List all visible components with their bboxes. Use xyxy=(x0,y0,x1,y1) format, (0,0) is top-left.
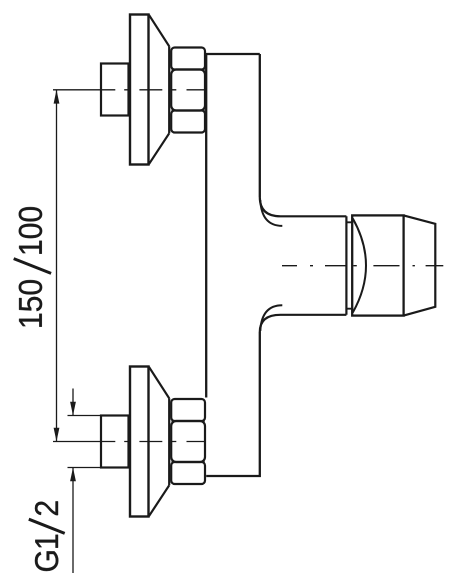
upper fillet secondary arc xyxy=(260,200,282,226)
bottom wall flange plate xyxy=(130,367,149,517)
bottom hex nut face boundary lines xyxy=(172,421,205,462)
ring groove left edge xyxy=(345,216,347,314)
valve housing upper contour with fillet xyxy=(260,197,347,216)
arrowhead main bottom xyxy=(54,428,60,442)
secondary dimension line lower segment xyxy=(72,468,74,574)
main dimension line 150/100 xyxy=(56,90,58,442)
arrowhead secondary down xyxy=(70,402,76,416)
big slash of 150/100 xyxy=(14,259,51,274)
top centre line solid run xyxy=(53,89,115,91)
arrowhead main top xyxy=(54,90,60,104)
dimension text 150 xyxy=(19,280,42,327)
top hex nut face upper xyxy=(171,48,205,70)
end knob xyxy=(404,215,436,315)
bottom centre line dash-dot run xyxy=(124,441,204,443)
big slash of G1/2 xyxy=(29,519,65,533)
top hex nut face lower xyxy=(171,111,205,133)
bottom inlet stub G1/2 xyxy=(101,416,129,468)
bottom hex nut face lower xyxy=(171,462,205,484)
ring groove step lines xyxy=(346,222,352,308)
bottom escutcheon cone xyxy=(149,367,169,516)
thread label 2 xyxy=(35,501,58,515)
cap lens arc xyxy=(353,219,366,313)
extension line stub bottom xyxy=(68,467,102,469)
thread label G xyxy=(35,551,58,571)
top centre line dash-dot run xyxy=(124,89,204,91)
secondary dimension line upper segment xyxy=(72,389,74,416)
extension line stub top xyxy=(68,415,102,417)
thread label 1 xyxy=(35,535,58,548)
dimension text 100 xyxy=(19,207,42,254)
middle centre line dash-dot xyxy=(282,265,443,267)
bottom hex nut face middle xyxy=(171,421,205,462)
top hex nut face boundary lines xyxy=(172,70,205,111)
bottom centre line solid run xyxy=(53,441,115,443)
top hex nut face middle xyxy=(171,70,205,111)
lower fillet secondary arc xyxy=(260,305,282,331)
bottom hex nut face upper xyxy=(171,399,205,421)
valve housing lower contour with fillet xyxy=(260,315,347,332)
top escutcheon cone xyxy=(149,15,169,164)
cartridge cap xyxy=(352,215,403,315)
arrowhead secondary up xyxy=(70,468,76,482)
top wall flange plate xyxy=(130,15,149,165)
top inlet stub G1/2 xyxy=(101,64,129,116)
faucet body column xyxy=(206,54,260,476)
